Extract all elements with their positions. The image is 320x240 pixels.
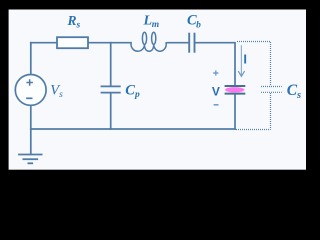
svg-text:I: I	[243, 52, 247, 67]
inductor Lm	[131, 32, 168, 51]
black frame background	[0, 0, 315, 181]
wire: resistor to inductor	[88, 42, 131, 44]
svg-text:V: V	[212, 84, 220, 98]
dotted capacitor Cs plates	[261, 86, 282, 88]
label V with polarity	[212, 84, 220, 98]
schematic canvas	[9, 10, 306, 170]
wire: source bottom lead	[30, 105, 32, 129]
dotted wire: bottom	[236, 129, 271, 131]
capacitor Cp plates	[101, 86, 121, 92]
ground	[18, 155, 42, 164]
voltage source Vs circle	[15, 75, 46, 106]
wire: Cp top lead	[110, 43, 112, 86]
dotted wire: right lower	[270, 93, 272, 130]
wire: Cp bottom lead	[110, 93, 112, 129]
voltage source minus sign	[26, 97, 32, 99]
wire: top left segment (source to resistor)	[31, 43, 57, 44]
wire: transducer bottom plate down to bottom rail	[234, 94, 236, 129]
piezo transducer pink disc	[225, 87, 245, 93]
dotted stray-capacitance branch	[236, 42, 282, 130]
current arrow I	[238, 45, 244, 76]
wire: bottom rail	[31, 128, 235, 130]
plus sign above V	[213, 70, 218, 104]
dotted wire: right upper	[270, 42, 272, 86]
minus sign below V	[214, 104, 219, 106]
dotted wire: top	[237, 41, 271, 43]
wire: inductor to Cb	[168, 42, 188, 44]
wire: Cb to top-right corner, down to transducer top plate	[195, 43, 235, 85]
capacitor Cb plates	[189, 33, 194, 53]
resistor Rs	[57, 37, 88, 48]
wire: source top lead	[30, 43, 32, 75]
wire: ground stem	[30, 129, 32, 154]
voltage source plus sign	[26, 79, 33, 98]
transducer plates	[225, 86, 246, 94]
